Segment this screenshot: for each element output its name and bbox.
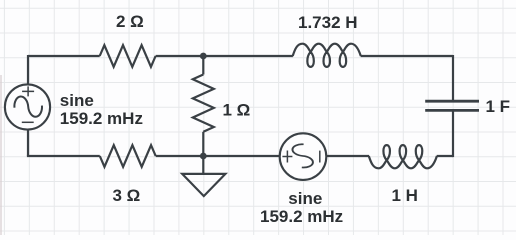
voltage source V1 sine [5, 84, 50, 129]
svg-text:sine: sine [60, 91, 94, 110]
svg-text:159.2 mHz: 159.2 mHz [260, 207, 343, 226]
capacitor 1 F [425, 101, 479, 110]
node B junction dot [200, 153, 207, 160]
svg-text:2 Ω: 2 Ω [116, 12, 144, 31]
voltage source V2 sine [280, 133, 327, 180]
inductor 1 H [369, 145, 437, 168]
wire V1 top to R2 [28, 55, 100, 57]
svg-text:1.732 H: 1.732 H [298, 13, 358, 32]
svg-text:159.2 mHz: 159.2 mHz [60, 109, 143, 128]
wire V1 bottom to R3 [27, 155, 100, 157]
wire left rail upper (V1 positive lead) [27, 55, 29, 85]
svg-text:1 Ω: 1 Ω [223, 100, 251, 119]
svg-text:1 F: 1 F [486, 97, 511, 116]
wire L2 to right corner [437, 155, 453, 157]
ground [182, 174, 225, 196]
wire L1 to right corner [361, 55, 453, 57]
resistor 2 ohm [100, 45, 156, 67]
wire R3 to V2 with node B tap [156, 155, 280, 157]
wire left rail lower (V1 negative lead) [27, 130, 29, 156]
resistor 3 ohm [100, 145, 156, 167]
wire node A to R1 top lead [202, 56, 204, 75]
svg-text:3 Ω: 3 Ω [113, 186, 141, 205]
inductor 1.732 H [293, 44, 361, 67]
resistor 1 ohm [193, 75, 214, 132]
wire right rail upper (to C1 top plate) [452, 55, 454, 100]
svg-text:1 H: 1 H [392, 186, 418, 205]
svg-text:sine: sine [288, 189, 322, 208]
node A junction dot [200, 53, 207, 60]
wire R2 to L1 with node A tap [156, 55, 293, 57]
wire node B to ground [202, 156, 204, 174]
wire V2 to L2 [327, 155, 370, 157]
wire right rail lower (from C1 bottom plate) [452, 112, 454, 158]
wire R1 bottom lead to node B [202, 132, 204, 156]
